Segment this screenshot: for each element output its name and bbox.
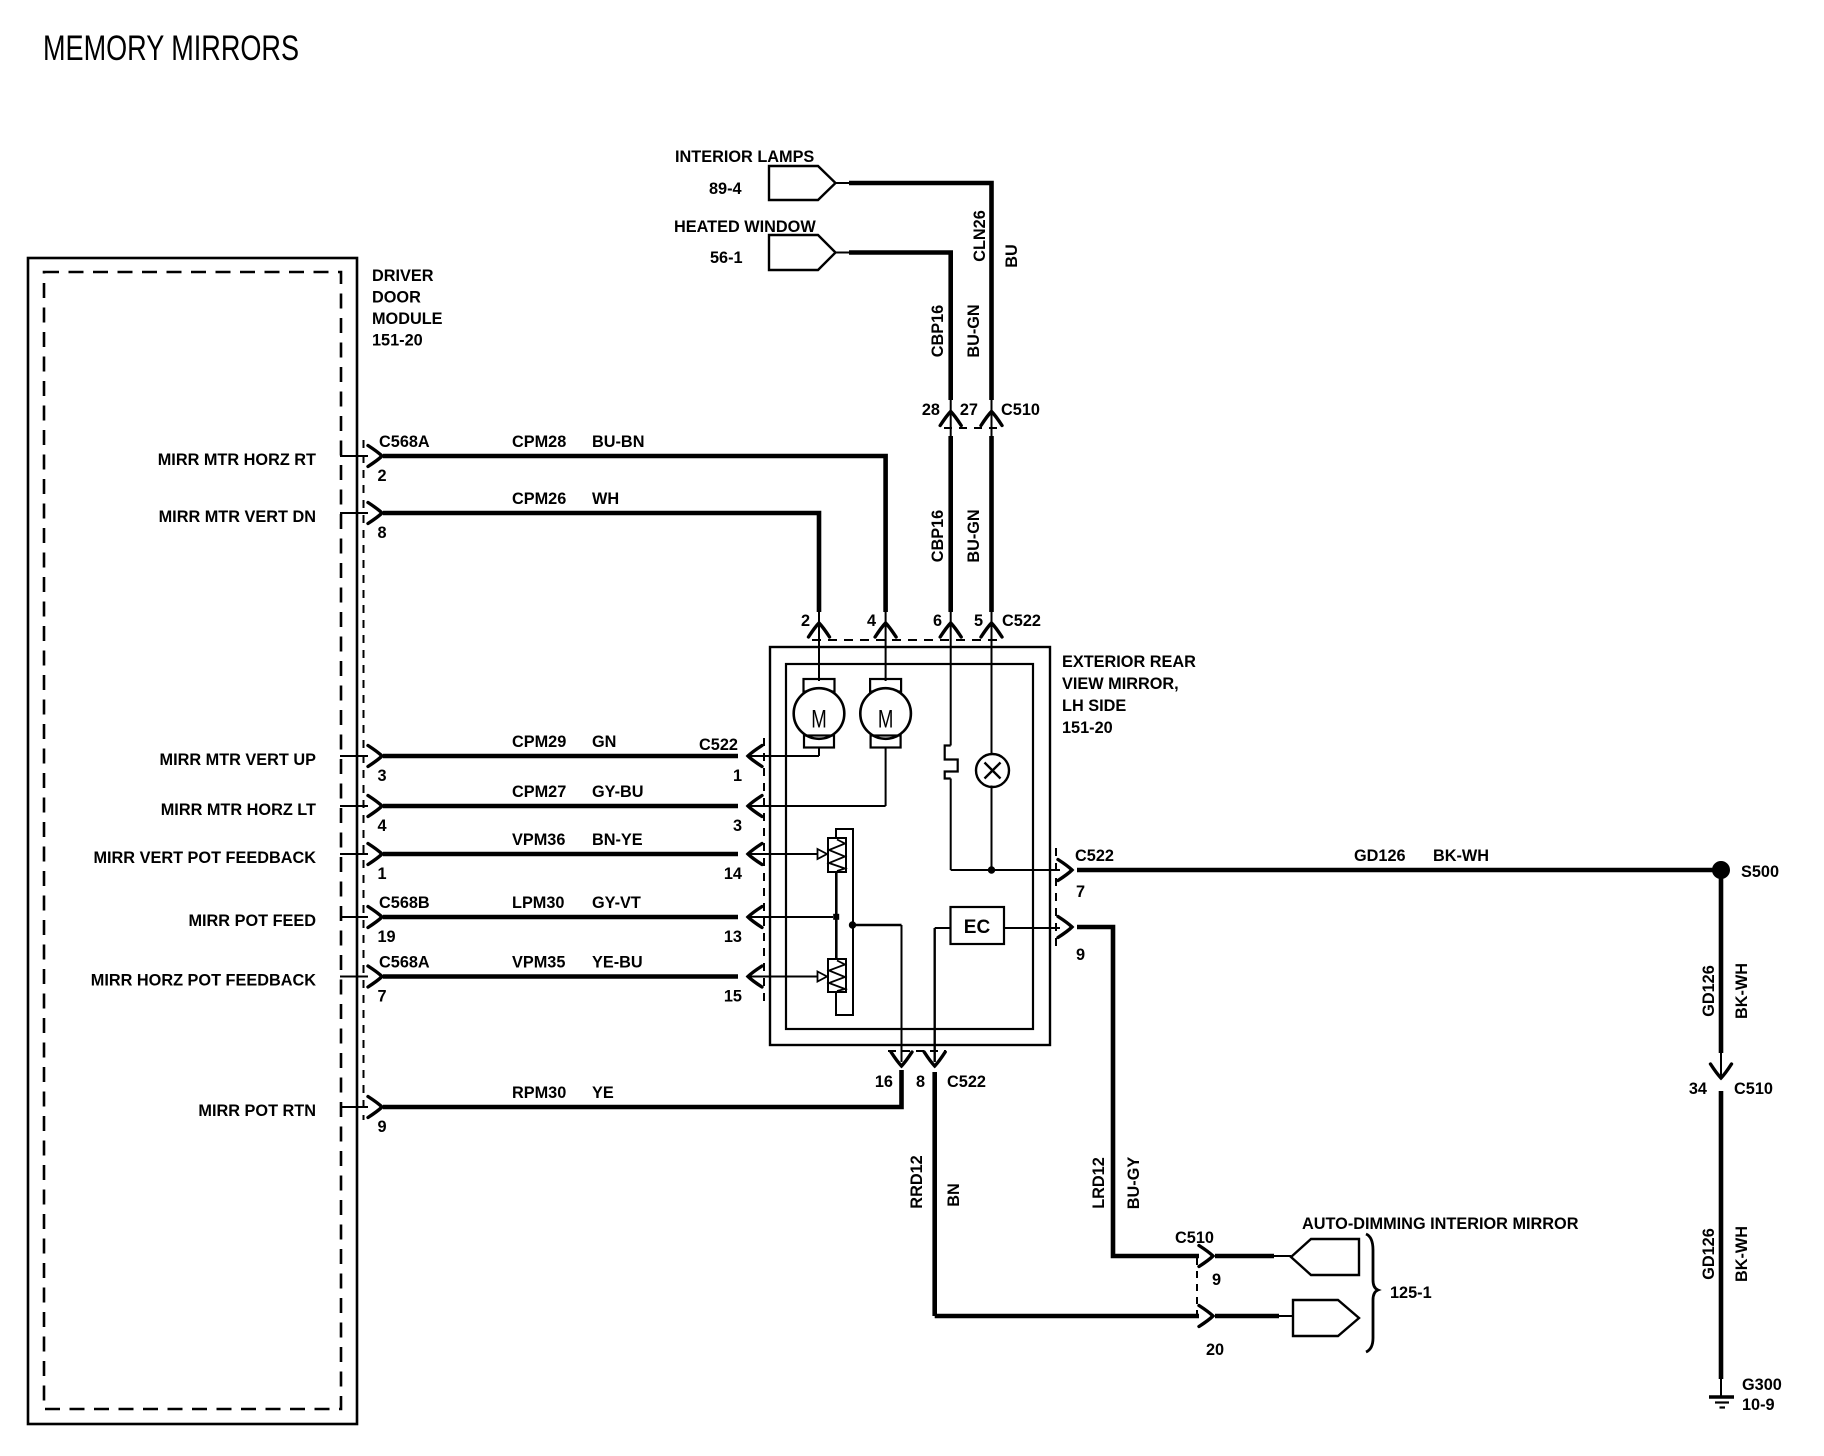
svg-text:C522: C522 xyxy=(1075,847,1114,865)
svg-text:MIRR VERT POT FEEDBACK: MIRR VERT POT FEEDBACK xyxy=(93,849,316,867)
svg-text:S500: S500 xyxy=(1741,863,1779,881)
svg-text:3: 3 xyxy=(733,817,742,835)
svg-text:AUTO-DIMMING INTERIOR MIRROR: AUTO-DIMMING INTERIOR MIRROR xyxy=(1302,1215,1579,1233)
svg-text:GN: GN xyxy=(592,733,616,751)
svg-text:1: 1 xyxy=(733,767,742,785)
svg-text:16: 16 xyxy=(875,1073,893,1091)
svg-text:8: 8 xyxy=(916,1073,925,1091)
svg-text:CBP16: CBP16 xyxy=(929,510,947,563)
svg-text:C522: C522 xyxy=(1002,612,1041,630)
svg-text:C568B: C568B xyxy=(379,894,430,912)
svg-text:9: 9 xyxy=(1076,946,1085,964)
svg-text:GY-BU: GY-BU xyxy=(592,783,644,801)
svg-text:CPM29: CPM29 xyxy=(512,733,566,751)
svg-text:CPM26: CPM26 xyxy=(512,490,566,508)
svg-text:BN: BN xyxy=(945,1183,963,1207)
svg-text:CBP16: CBP16 xyxy=(929,305,947,358)
svg-text:C522: C522 xyxy=(947,1073,986,1091)
svg-text:HEATED WINDOW: HEATED WINDOW xyxy=(674,218,816,236)
svg-text:LPM30: LPM30 xyxy=(512,894,564,912)
svg-text:CLN26: CLN26 xyxy=(971,210,989,262)
svg-text:BU-GN: BU-GN xyxy=(965,304,983,357)
svg-text:5: 5 xyxy=(974,612,983,630)
svg-text:CPM27: CPM27 xyxy=(512,783,566,801)
svg-text:MIRR MTR VERT DN: MIRR MTR VERT DN xyxy=(159,508,316,526)
svg-text:28: 28 xyxy=(922,401,940,419)
svg-text:M: M xyxy=(811,706,827,734)
svg-text:M: M xyxy=(878,706,894,734)
svg-text:EXTERIOR REAR: EXTERIOR REAR xyxy=(1062,653,1196,671)
svg-text:DRIVER: DRIVER xyxy=(372,267,434,285)
svg-text:8: 8 xyxy=(378,524,387,542)
svg-text:WH: WH xyxy=(592,490,619,508)
svg-text:MIRR POT FEED: MIRR POT FEED xyxy=(188,912,316,930)
svg-text:27: 27 xyxy=(960,401,978,419)
svg-text:LRD12: LRD12 xyxy=(1090,1157,1108,1209)
svg-text:GY-VT: GY-VT xyxy=(592,894,641,912)
svg-text:C522: C522 xyxy=(699,736,738,754)
svg-text:4: 4 xyxy=(378,817,387,835)
svg-text:EC: EC xyxy=(964,917,991,938)
svg-text:YE: YE xyxy=(592,1084,614,1102)
svg-text:C568A: C568A xyxy=(379,433,430,451)
svg-text:7: 7 xyxy=(1076,883,1085,901)
svg-text:DOOR: DOOR xyxy=(372,289,421,307)
svg-text:19: 19 xyxy=(378,928,396,946)
svg-text:BK-WH: BK-WH xyxy=(1733,1226,1751,1282)
svg-text:VPM36: VPM36 xyxy=(512,831,565,849)
svg-text:6: 6 xyxy=(933,612,942,630)
svg-text:2: 2 xyxy=(801,612,810,630)
svg-text:9: 9 xyxy=(1212,1271,1221,1289)
svg-text:3: 3 xyxy=(378,767,387,785)
svg-text:10-9: 10-9 xyxy=(1742,1396,1775,1414)
svg-text:13: 13 xyxy=(724,928,742,946)
svg-text:4: 4 xyxy=(867,612,876,630)
svg-text:BU: BU xyxy=(1003,244,1021,268)
svg-text:BN-YE: BN-YE xyxy=(592,831,643,849)
svg-text:BK-WH: BK-WH xyxy=(1433,847,1489,865)
svg-text:INTERIOR LAMPS: INTERIOR LAMPS xyxy=(675,148,814,166)
svg-text:RPM30: RPM30 xyxy=(512,1084,566,1102)
svg-text:C510: C510 xyxy=(1175,1229,1214,1247)
svg-text:151-20: 151-20 xyxy=(1062,719,1113,737)
svg-text:14: 14 xyxy=(724,865,742,883)
svg-text:VIEW MIRROR,: VIEW MIRROR, xyxy=(1062,675,1179,693)
svg-text:89-4: 89-4 xyxy=(709,180,742,198)
svg-text:MIRR HORZ POT FEEDBACK: MIRR HORZ POT FEEDBACK xyxy=(91,972,316,990)
svg-text:MODULE: MODULE xyxy=(372,310,443,328)
svg-text:9: 9 xyxy=(378,1118,387,1136)
svg-text:BU-GY: BU-GY xyxy=(1125,1157,1143,1210)
svg-text:G300: G300 xyxy=(1742,1376,1782,1394)
svg-text:15: 15 xyxy=(724,988,742,1006)
svg-text:C510: C510 xyxy=(1734,1080,1773,1098)
svg-text:YE-BU: YE-BU xyxy=(592,954,643,972)
svg-text:GD126: GD126 xyxy=(1700,1228,1718,1280)
svg-text:7: 7 xyxy=(378,988,387,1006)
svg-text:LH SIDE: LH SIDE xyxy=(1062,697,1126,715)
svg-text:BK-WH: BK-WH xyxy=(1733,963,1751,1019)
svg-text:VPM35: VPM35 xyxy=(512,954,565,972)
svg-text:20: 20 xyxy=(1206,1341,1224,1359)
svg-text:CPM28: CPM28 xyxy=(512,433,566,451)
svg-text:151-20: 151-20 xyxy=(372,332,423,350)
svg-text:MIRR POT RTN: MIRR POT RTN xyxy=(198,1102,316,1120)
svg-text:C568A: C568A xyxy=(379,954,430,972)
svg-text:MEMORY MIRRORS: MEMORY MIRRORS xyxy=(43,29,299,68)
svg-text:RRD12: RRD12 xyxy=(908,1155,926,1208)
svg-text:BU-GN: BU-GN xyxy=(965,509,983,562)
svg-text:2: 2 xyxy=(378,467,387,485)
svg-text:BU-BN: BU-BN xyxy=(592,433,644,451)
svg-text:1: 1 xyxy=(378,865,387,883)
svg-text:34: 34 xyxy=(1689,1080,1707,1098)
svg-text:C510: C510 xyxy=(1001,401,1040,419)
svg-text:GD126: GD126 xyxy=(1700,965,1718,1017)
svg-text:56-1: 56-1 xyxy=(710,249,743,267)
svg-text:MIRR MTR HORZ LT: MIRR MTR HORZ LT xyxy=(161,801,316,819)
svg-text:125-1: 125-1 xyxy=(1390,1284,1432,1302)
svg-text:MIRR MTR VERT UP: MIRR MTR VERT UP xyxy=(160,751,317,769)
svg-text:MIRR MTR HORZ RT: MIRR MTR HORZ RT xyxy=(158,451,316,469)
svg-text:GD126: GD126 xyxy=(1354,847,1406,865)
